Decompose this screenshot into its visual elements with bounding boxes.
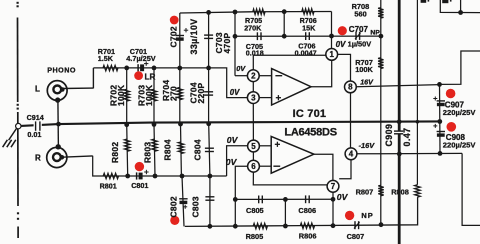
node rail-x235 [233, 10, 238, 15]
svg-text:L: L [35, 85, 40, 94]
label 0.01 [27, 130, 41, 139]
pin 1 [326, 49, 338, 61]
resistor R807 [378, 185, 383, 196]
label C704 [189, 82, 199, 103]
svg-text:C801: C801 [131, 181, 148, 190]
node bus-R704 [178, 122, 183, 127]
label 0V pin3 [230, 88, 240, 97]
svg-text:R807: R807 [356, 187, 374, 196]
wire x235 lower [234, 199, 236, 226]
label R702 value [116, 85, 126, 106]
svg-text:220µ/25V: 220µ/25V [443, 108, 477, 117]
label R807 [356, 187, 374, 196]
node brail-C803 [208, 224, 213, 229]
wire jack shells to bus [55, 97, 61, 149]
svg-text:NP: NP [370, 30, 380, 37]
resistor R808 [415, 185, 420, 197]
wire pin6 to triangle [259, 165, 271, 167]
label C701 [130, 47, 147, 56]
label 1u/50V [348, 40, 372, 49]
capacitor C807 [354, 221, 360, 229]
svg-text:C914: C914 [27, 113, 44, 122]
wire pin5 left [227, 146, 248, 176]
wire R803 column [154, 124, 155, 176]
wire supply rail thick [398, 0, 401, 244]
svg-text:0V: 0V [236, 64, 246, 73]
pin 3 [247, 92, 259, 104]
svg-text:R: R [35, 154, 41, 163]
svg-text:0.47: 0.47 [402, 128, 412, 147]
pin 6 [248, 160, 260, 172]
label R701 [98, 47, 115, 56]
wire C804 column [209, 124, 210, 176]
label R702 [109, 85, 119, 106]
wire pin1 to pin8 [337, 54, 350, 81]
label C908 value [443, 140, 477, 149]
svg-text:560: 560 [354, 9, 366, 18]
capacitor C703 [204, 35, 213, 38]
svg-text:R805: R805 [246, 232, 264, 241]
phono jack R [47, 147, 93, 167]
label C803 [191, 196, 201, 217]
svg-text:5: 5 [251, 142, 256, 151]
resistor R804 [178, 142, 183, 154]
node C907 top [437, 82, 442, 87]
svg-text:15K: 15K [302, 24, 316, 33]
label C702 [169, 26, 179, 47]
svg-text:C909: C909 [384, 124, 394, 147]
label NP C707 [370, 30, 380, 37]
wire pin2 to pin3 [252, 81, 254, 92]
label 16V [360, 78, 374, 87]
svg-text:0.0047: 0.0047 [295, 48, 317, 57]
wire pin7 bottom [332, 192, 334, 226]
svg-text:270: 270 [169, 86, 179, 101]
wire pin6 down to pin7 [253, 172, 327, 185]
capacitor C705 [257, 32, 261, 40]
node pin4wire-C908 [438, 151, 443, 156]
label C705 [246, 42, 263, 51]
wire R702 column [126, 68, 128, 125]
capacitor C803 [205, 197, 214, 200]
label LA6458DS [284, 126, 336, 138]
plus C908 [433, 124, 437, 128]
node fb-235 [233, 34, 238, 39]
svg-text:C707: C707 [349, 25, 369, 34]
wire top right corner [440, 0, 480, 13]
node brail-235 [233, 224, 238, 229]
svg-text:R803: R803 [143, 142, 153, 163]
svg-text:220P: 220P [196, 82, 206, 103]
svg-text:R804: R804 [163, 139, 173, 160]
wire main bus [21, 121, 440, 126]
wire C703 column [208, 12, 210, 68]
svg-text:16V: 16V [360, 78, 374, 87]
svg-text:4.7µ/25V: 4.7µ/25V [126, 54, 155, 63]
resistor R706 [302, 9, 314, 14]
node input-R703 [152, 66, 157, 71]
pin 4 [345, 148, 357, 160]
capacitor C908 [437, 132, 445, 137]
label C805 [246, 206, 264, 215]
wire x285 lower [284, 199, 286, 226]
label 0V pin2 [236, 64, 246, 73]
node brail-pin7 [331, 223, 336, 228]
label R [35, 154, 41, 163]
capacitor C801 [137, 172, 143, 179]
label 0V pin5 [227, 135, 239, 145]
wire R808 column [416, 0, 418, 185]
capacitor C702 [176, 36, 184, 41]
svg-text:C803: C803 [191, 196, 201, 217]
node bus-C704 [206, 121, 211, 126]
label C801 [131, 181, 148, 190]
svg-text:6: 6 [251, 162, 256, 171]
svg-text:8: 8 [348, 83, 353, 92]
svg-text:1µ/50V: 1µ/50V [348, 40, 372, 49]
label R705 [245, 16, 262, 25]
svg-text:0V: 0V [336, 40, 346, 49]
resistor R802 [125, 139, 130, 151]
section boundary dash-dot line [16, 2, 19, 238]
wire pin2 to pin1 [253, 55, 326, 70]
capacitor C706 [306, 32, 310, 40]
label R706 [300, 16, 317, 25]
svg-text:33µ/10V: 33µ/10V [189, 18, 199, 54]
wire pin2 left [235, 75, 248, 77]
pin 2 [247, 70, 259, 82]
node fb-284 [282, 34, 287, 39]
capacitor C914 [34, 121, 42, 131]
node inR-R803 [153, 174, 158, 179]
wire C704 column [208, 68, 210, 124]
wire R703 column [153, 68, 155, 125]
capacitor C909 [394, 131, 403, 134]
node topright [458, 10, 463, 15]
label C707 [349, 25, 369, 34]
wire R707 column [380, 36, 382, 225]
label C914 [27, 113, 44, 122]
label C908 [446, 133, 466, 142]
svg-text:100K: 100K [355, 65, 373, 74]
node input-R702 [124, 66, 129, 71]
label 33u/10V [189, 18, 199, 54]
svg-text:C802: C802 [169, 196, 179, 217]
label 0.0047 [295, 48, 317, 57]
svg-text:C804: C804 [193, 139, 203, 160]
wire pin8 right [356, 85, 439, 87]
plus C702 [184, 28, 188, 32]
connector stub A [421, 0, 430, 3]
wire pin3 to triangle [259, 97, 272, 99]
label L [35, 85, 40, 94]
svg-text:0V: 0V [230, 88, 240, 97]
pin 8 [345, 81, 357, 93]
label C703 [214, 32, 224, 53]
node fb-381 [379, 34, 384, 39]
node brail-285 [283, 224, 288, 229]
terminal node (open circle) [16, 123, 21, 128]
capacitor C701 [138, 64, 144, 71]
test point C807 [345, 211, 354, 220]
label R703 [137, 85, 147, 106]
wire R802 column [127, 125, 128, 176]
test point C801 [135, 162, 144, 171]
node pin4wire-C909 [397, 152, 402, 157]
wire bottom right elbow [462, 153, 480, 225]
wire C803 column [209, 176, 211, 226]
wire pin6 left [235, 166, 248, 199]
test point C908 [447, 122, 457, 132]
plus C801 [144, 170, 148, 174]
svg-text:C702: C702 [169, 26, 179, 47]
resistor R801 [103, 173, 118, 178]
svg-text:R806: R806 [299, 232, 317, 241]
node input-C702 [177, 66, 182, 71]
label C706 [298, 42, 315, 51]
node bus-x417 [416, 120, 420, 124]
label R703 value [144, 85, 154, 106]
plus C907 [433, 97, 437, 101]
capacitor C707 [355, 32, 361, 40]
node input-C703 [206, 66, 211, 71]
test point C702 [170, 16, 179, 25]
pin 5 [248, 140, 260, 152]
label 15K [302, 24, 316, 33]
resistor R704 [177, 87, 182, 99]
node bus-C909 [397, 119, 402, 124]
label C807 [347, 232, 365, 241]
svg-text:PHONO: PHONO [47, 65, 76, 74]
wire R804 column [180, 124, 183, 176]
label 470P [222, 32, 232, 53]
wire right elbow [440, 51, 480, 84]
node bus-R702 [124, 122, 129, 127]
wire pin4 right [357, 152, 462, 154]
label C909 [384, 124, 394, 147]
svg-text:R801: R801 [100, 181, 117, 190]
capacitor C907 [437, 101, 445, 106]
resistor R707 [378, 58, 383, 69]
label -16V [359, 141, 376, 150]
label 0.018 [246, 49, 264, 58]
svg-text:LA6458DS: LA6458DS [284, 126, 336, 138]
svg-text:R802: R802 [110, 142, 120, 163]
label R704 [161, 80, 171, 101]
node lfb-285 [283, 197, 288, 202]
label 0.47 [402, 128, 412, 147]
resistor R805 [253, 223, 267, 228]
wire input L [93, 68, 247, 98]
wire pin5 to pin6 [252, 152, 254, 161]
node rail-x284 [282, 9, 287, 14]
svg-text:0V: 0V [227, 135, 239, 145]
test point C907 [446, 89, 456, 99]
resistor R806 [300, 223, 314, 228]
node bus-C908 [437, 119, 442, 124]
node bus-jack [56, 122, 61, 127]
svg-text:2: 2 [251, 72, 256, 81]
wire x235 rail to node [234, 12, 236, 36]
capacitor C802 [179, 199, 187, 204]
svg-text:IC 701: IC 701 [293, 108, 327, 120]
resistor R703 [151, 89, 156, 101]
plus C802 [183, 205, 187, 209]
svg-text:1: 1 [329, 50, 334, 59]
label C806 [298, 206, 316, 215]
wire topright stub [460, 0, 462, 13]
op-amp IC701a [272, 69, 311, 105]
label R708 [352, 2, 370, 11]
node lfb-235 [233, 197, 238, 202]
svg-text:4: 4 [349, 150, 354, 159]
op-amp IC701b [271, 136, 314, 173]
label 560 [354, 9, 366, 18]
ground [3, 128, 17, 147]
wire feedback node [235, 35, 381, 37]
phono jack L [47, 68, 93, 100]
capacitor C805 [259, 196, 263, 204]
label R704 value [169, 86, 179, 101]
label C704 value [196, 82, 206, 103]
node fb-331 [329, 34, 334, 39]
svg-text:470P: 470P [222, 32, 232, 53]
label R707 [355, 58, 373, 67]
test point LR [134, 71, 143, 80]
wire top rail [180, 12, 332, 14]
wire pin2 to triangle [259, 75, 272, 77]
label R707 value [355, 65, 373, 74]
svg-text:100K: 100K [144, 85, 154, 106]
connector stub B [442, 0, 451, 3]
label R802 [110, 142, 120, 163]
svg-text:220µ/25V: 220µ/25V [443, 140, 477, 149]
pin 7 [327, 180, 339, 192]
label 1.5K [98, 54, 114, 63]
svg-text:7: 7 [331, 182, 336, 191]
test point C707 [338, 26, 347, 35]
label 0V C707 [336, 40, 346, 49]
node bus-R703 [152, 122, 157, 127]
svg-text:3: 3 [251, 93, 256, 102]
node brail-R807 [379, 222, 384, 227]
wire C908 column [439, 122, 441, 154]
wire x235 node to pin2 [234, 36, 236, 75]
label C802 [169, 196, 179, 217]
resistor R701 [103, 65, 118, 70]
svg-text:-16V: -16V [359, 141, 376, 150]
resistor R803 [152, 139, 157, 151]
plus C701 [144, 61, 148, 65]
wire pin8 to pin4 [350, 93, 352, 148]
wire pin5 to triangle [259, 145, 271, 147]
wire pin1 bottom to output [311, 60, 332, 87]
node rail-C703 [206, 10, 211, 15]
wire pin3 down to pin5 [252, 103, 254, 140]
label C907 [445, 100, 465, 109]
resistor R708 [378, 8, 383, 18]
svg-text:100K: 100K [116, 85, 126, 106]
wire rail corner down [331, 12, 333, 37]
resistor R702 [124, 89, 129, 101]
wire C802 column [182, 176, 184, 226]
label LR [145, 73, 156, 82]
wire C805 node [235, 198, 333, 200]
svg-text:0.01: 0.01 [27, 130, 41, 139]
label NP C807 [361, 211, 373, 220]
label R803 [143, 142, 153, 163]
label R808 [391, 187, 409, 196]
node inR-R804 [180, 174, 185, 179]
wire pin4 to pin7 [339, 160, 351, 179]
label 0V pin6 [226, 157, 238, 167]
label R804 [163, 139, 173, 160]
svg-text:0V: 0V [337, 192, 349, 202]
node inR-C804 [208, 174, 213, 179]
label 270K [244, 24, 262, 33]
svg-text:C805: C805 [246, 206, 264, 215]
wire C702 column [179, 13, 181, 68]
wire C907 column [439, 84, 441, 121]
test point C802 [170, 216, 179, 225]
resistor R705 [253, 9, 265, 14]
wire output U1b [314, 154, 333, 180]
wire pin1 top [331, 36, 333, 49]
label 4.7u/25V [126, 54, 155, 63]
label PHONO [47, 65, 76, 74]
label R801 [100, 181, 117, 190]
label 0V pin7 [337, 192, 349, 202]
svg-text:0V: 0V [226, 157, 238, 167]
svg-text:0.018: 0.018 [246, 49, 264, 58]
wire x284 rail to node [283, 12, 285, 37]
label C907 value [443, 108, 477, 117]
svg-text:C806: C806 [298, 206, 316, 215]
label C804 [193, 139, 203, 160]
svg-text:270K: 270K [244, 24, 262, 33]
wire R704 column [179, 68, 181, 124]
label R806 [299, 232, 317, 241]
node inR-R802 [125, 174, 130, 179]
wire input R [93, 156, 227, 176]
svg-text:1.5K: 1.5K [98, 54, 114, 63]
wire bottom rail [185, 197, 418, 226]
capacitor C806 [306, 195, 310, 203]
capacitor C804 [205, 148, 214, 151]
label IC 701 [293, 108, 327, 120]
svg-text:NP: NP [361, 211, 373, 220]
capacitor C704 [204, 92, 213, 95]
node pin7-C806 [331, 197, 336, 202]
label R805 [246, 232, 264, 241]
svg-text:C807: C807 [347, 232, 365, 241]
wire R708 column [380, 0, 382, 36]
